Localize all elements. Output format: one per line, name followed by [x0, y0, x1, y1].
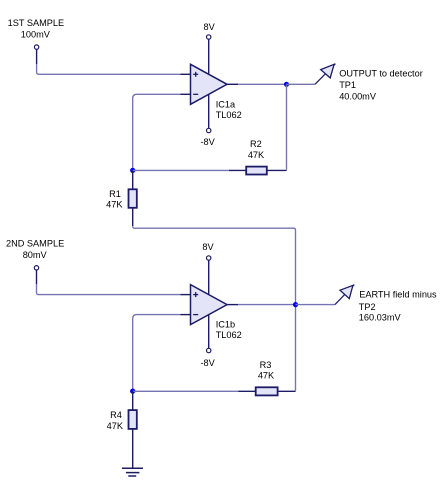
test point TP1 arrow [315, 64, 335, 85]
wire IC1b output to node D [238, 304, 295, 306]
pin IC1a plus input [181, 73, 191, 75]
svg-text:47K: 47K [106, 199, 123, 209]
svg-text:40.00mV: 40.00mV [339, 92, 377, 102]
wire IC1b minus input to node C [133, 315, 181, 392]
node A junction [130, 168, 135, 173]
resistor R2 [267, 169, 287, 171]
wire node B down to R2 [286, 84, 288, 169]
svg-text:TP1: TP1 [339, 80, 356, 90]
node B junction [284, 82, 289, 87]
svg-text:1ST SAMPLE: 1ST SAMPLE [8, 18, 65, 28]
power -8V supply (IC1a) [208, 95, 210, 129]
svg-text:160.03mV: 160.03mV [359, 313, 402, 323]
svg-text:8V: 8V [203, 22, 215, 32]
wire R1 bottom to node D [133, 226, 296, 304]
svg-text:100mV: 100mV [21, 30, 51, 40]
pin IC1b plus input [181, 294, 191, 296]
power -8V supply (IC1b) [208, 315, 210, 349]
pin IC1a output [227, 83, 238, 85]
pin terminal 1 [36, 49, 38, 64]
wire IC1a output to node B [238, 83, 286, 85]
svg-text:R4: R4 [110, 410, 122, 420]
wire node C to R3 [133, 390, 239, 392]
op-amp IC1a [191, 64, 228, 104]
pin terminal 2 [36, 270, 38, 284]
wire R4 to ground [132, 429, 134, 468]
terminal input 1 [34, 45, 38, 49]
svg-text:8V: 8V [202, 242, 214, 252]
resistor R1 [132, 170, 134, 189]
svg-text:-8V: -8V [200, 358, 215, 368]
svg-text:TP2: TP2 [359, 302, 376, 312]
terminal input 2 [34, 266, 38, 270]
pin IC1b minus input [181, 314, 191, 316]
svg-text:R1: R1 [109, 189, 121, 199]
svg-text:-8V: -8V [200, 137, 215, 147]
svg-text:2ND SAMPLE: 2ND SAMPLE [6, 238, 64, 248]
wire node D to TP2 [296, 304, 336, 306]
svg-text:R2: R2 [250, 139, 262, 149]
node D junction [293, 302, 298, 307]
svg-text:80mV: 80mV [23, 250, 48, 260]
ground [122, 467, 143, 469]
svg-text:IC1b: IC1b [216, 320, 235, 330]
op-amp IC1b [191, 285, 228, 325]
svg-text:TL062: TL062 [216, 110, 242, 120]
pin IC1b output [227, 304, 238, 306]
test point TP2 arrow [335, 285, 354, 305]
svg-text:47K: 47K [107, 421, 124, 431]
pin IC1a minus input [181, 93, 191, 95]
wire input1 to +IC1a [37, 64, 181, 74]
wire R2 to node A [133, 169, 229, 171]
svg-text:47K: 47K [258, 371, 275, 381]
svg-text:EARTH field minus: EARTH field minus [359, 290, 437, 300]
svg-text:TL062: TL062 [216, 330, 242, 340]
wire node B to TP1 [287, 83, 316, 85]
svg-text:47K: 47K [248, 150, 265, 160]
wire input2 to +IC1b [37, 284, 181, 294]
node C junction [130, 389, 135, 394]
svg-text:IC1a: IC1a [216, 100, 236, 110]
svg-text:OUTPUT to detector: OUTPUT to detector [339, 69, 423, 79]
resistor R3 [238, 390, 256, 392]
wire node D down to R3 [295, 305, 297, 391]
svg-text:R3: R3 [260, 360, 272, 370]
wire IC1a minus input to node A [133, 94, 181, 170]
resistor R4 [132, 391, 134, 410]
